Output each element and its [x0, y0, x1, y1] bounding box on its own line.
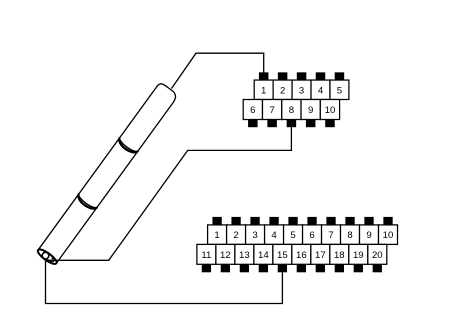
J2 pin 1 solder tab [212, 217, 221, 225]
J2 pin 20 cell [368, 244, 387, 264]
svg-text:15: 15 [277, 250, 288, 261]
svg-text:8: 8 [347, 230, 352, 241]
svg-text:18: 18 [334, 250, 345, 261]
J1 pin 6 cell [243, 100, 262, 120]
J1 pin 7 solder tab [267, 120, 277, 128]
J2 pin 2 cell [227, 225, 246, 245]
J2 pin 5 cell [284, 225, 303, 245]
J2 pin 18 cell [330, 244, 349, 264]
svg-text:1: 1 [214, 230, 219, 241]
svg-text:5: 5 [290, 230, 295, 241]
J1 pin 1 cell [254, 80, 273, 99]
J1 pin 9 cell [301, 100, 320, 120]
svg-text:3: 3 [299, 85, 304, 96]
J2 pin 20 solder tab [373, 264, 382, 272]
svg-text:6: 6 [250, 105, 255, 116]
svg-text:11: 11 [201, 250, 211, 261]
J1 pin 8 solder tab [287, 120, 297, 128]
J2 pin 8 cell [341, 225, 360, 245]
svg-text:4: 4 [318, 85, 324, 96]
J2 pin 12 cell [216, 244, 235, 264]
J1 pin 8 cell [282, 100, 301, 120]
J1 pin 2 solder tab [278, 72, 288, 80]
svg-text:7: 7 [328, 230, 333, 241]
J2 pin 12 solder tab [221, 264, 230, 272]
J1 pin 10 cell [320, 100, 339, 120]
svg-text:12: 12 [220, 250, 231, 261]
svg-text:17: 17 [315, 250, 326, 261]
J2 pin 15 solder tab [278, 264, 287, 272]
J2 pin 4 cell [265, 225, 284, 245]
J2 pin 16 solder tab [297, 264, 306, 272]
svg-text:19: 19 [353, 250, 364, 261]
svg-text:9: 9 [366, 230, 371, 241]
svg-text:1: 1 [261, 85, 266, 96]
J1 pin 1 solder tab [259, 72, 269, 80]
J2 pin 3 cell [246, 225, 265, 245]
J1 pin 2 cell [273, 80, 292, 99]
J2 pin 19 cell [349, 244, 368, 264]
svg-text:7: 7 [269, 105, 274, 116]
wire: J1 pin 8 to battery bottom terminal [48, 126, 291, 260]
svg-text:13: 13 [239, 250, 250, 261]
J1 pin 9 solder tab [306, 120, 316, 128]
J1 pin 5 solder tab [335, 72, 345, 80]
svg-text:10: 10 [383, 230, 394, 241]
J1 pin 4 cell [311, 80, 330, 99]
J2 pin 10 solder tab [383, 217, 392, 225]
J2 pin 18 solder tab [335, 264, 344, 272]
J2 pin 2 solder tab [231, 217, 240, 225]
J1 pin 5 cell [330, 80, 349, 99]
J2 pin 1 cell [208, 225, 227, 245]
svg-text:14: 14 [258, 250, 269, 261]
battery body outline [38, 82, 178, 263]
cell seam 1 [76, 194, 98, 212]
J2 pin 5 solder tab [288, 217, 297, 225]
svg-text:16: 16 [296, 250, 307, 261]
J1 pin 3 cell [292, 80, 311, 99]
J1 pin 10 solder tab [325, 120, 335, 128]
J2 pin 17 solder tab [316, 264, 325, 272]
svg-text:2: 2 [280, 85, 285, 96]
J1 pin 6 solder tab [248, 120, 258, 128]
svg-text:6: 6 [309, 230, 314, 241]
svg-text:20: 20 [372, 250, 383, 261]
J2 pin 9 cell [360, 225, 379, 245]
J2 pin 10 cell [379, 225, 398, 245]
J2 pin 13 solder tab [240, 264, 249, 272]
wire: battery bottom terminal to J2 pin 15 [46, 261, 283, 304]
J2 pin 17 cell [311, 244, 330, 264]
J2 pin 7 solder tab [326, 217, 335, 225]
cell seam 2 [116, 138, 138, 156]
negative terminal circle [41, 251, 50, 260]
J1 pin 7 cell [262, 100, 281, 120]
svg-text:9: 9 [308, 105, 313, 116]
svg-text:4: 4 [271, 230, 277, 241]
J2 pin 3 solder tab [250, 217, 259, 225]
J2 pin 7 cell [322, 225, 341, 245]
J2 pin 16 cell [292, 244, 311, 264]
J2 pin 4 solder tab [269, 217, 278, 225]
J2 pin 15 cell [273, 244, 292, 264]
svg-text:2: 2 [233, 230, 238, 241]
J2 pin 13 cell [235, 244, 254, 264]
J1 pin 4 solder tab [316, 72, 326, 80]
J1 pin 3 solder tab [297, 72, 307, 80]
J2 pin 14 cell [254, 244, 273, 264]
svg-text:10: 10 [325, 105, 336, 116]
connector J1 (10-pin header) [243, 72, 349, 127]
J2 pin 9 solder tab [364, 217, 373, 225]
J2 pin 6 cell [303, 225, 322, 245]
J2 pin 11 solder tab [202, 264, 211, 272]
bottom cap inner ring arc [47, 256, 55, 263]
J2 pin 11 cell [197, 244, 216, 264]
bottom end cap ellipse [36, 247, 59, 266]
battery pack BT1 (three cells in series) [36, 82, 179, 266]
svg-text:3: 3 [252, 230, 257, 241]
J2 pin 6 solder tab [307, 217, 316, 225]
J2 pin 19 solder tab [354, 264, 363, 272]
svg-text:8: 8 [289, 105, 294, 116]
wire: battery top terminal to J1 pin 1 [172, 53, 264, 88]
J2 pin 14 solder tab [259, 264, 268, 272]
connector J2 (20-pin header) [197, 217, 398, 272]
svg-text:5: 5 [337, 85, 342, 96]
J2 pin 8 solder tab [345, 217, 354, 225]
